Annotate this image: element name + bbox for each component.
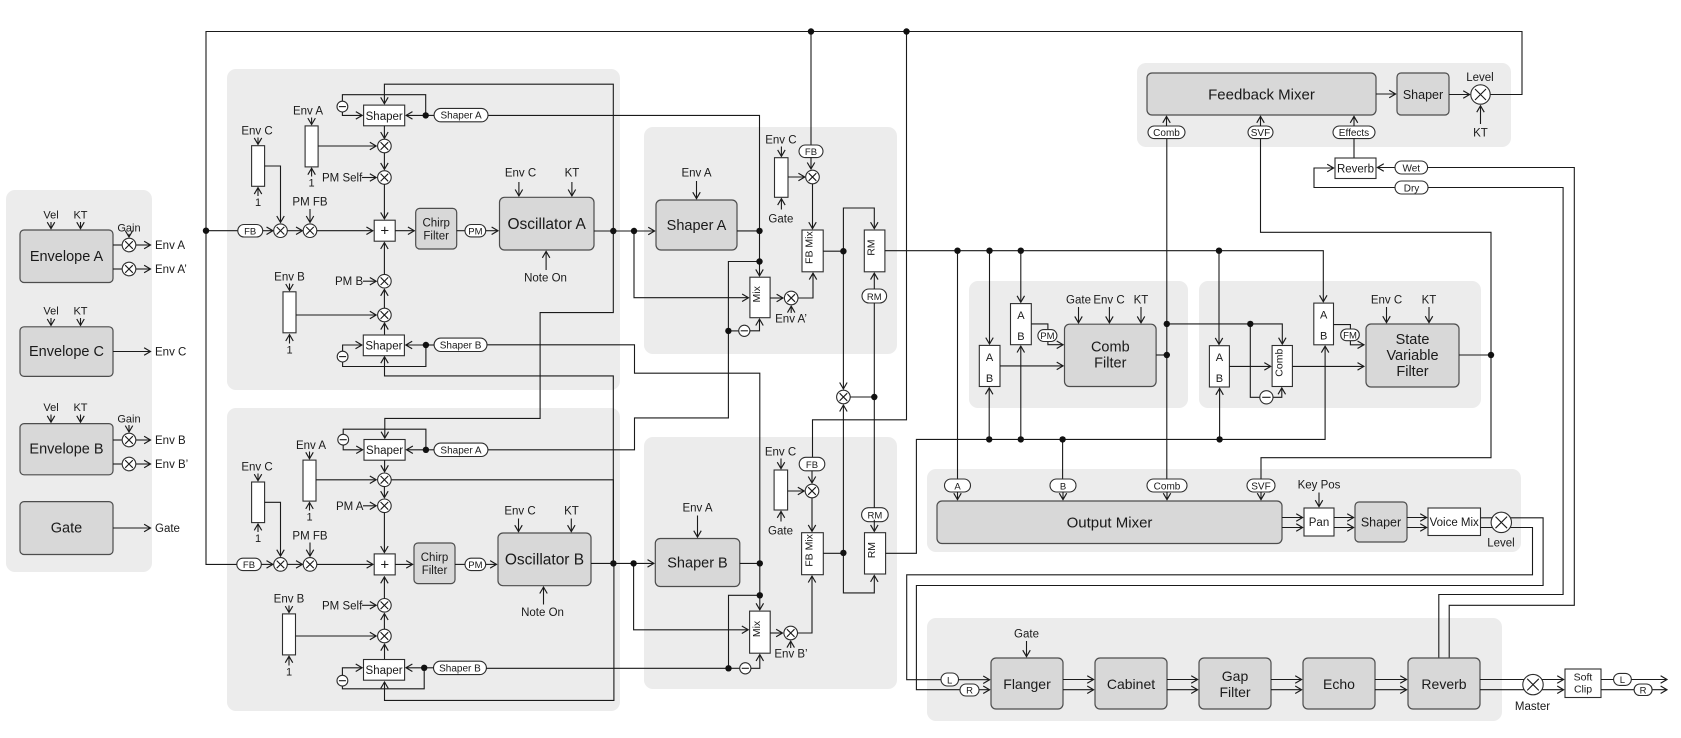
node A line to output mixer [954, 248, 960, 254]
svg-text:FM: FM [1343, 331, 1357, 342]
node B bus to switch 3 [1216, 436, 1222, 442]
wire FB spine branch to osc A FB oval [206, 230, 238, 232]
wire env A label arrow into slider [311, 118, 313, 125]
wire PM A label arrow into multiplier [363, 505, 376, 507]
svg-text:Env C: Env C [504, 506, 535, 518]
svg-text:Shaper: Shaper [1361, 516, 1401, 530]
svg-text:Level: Level [1487, 538, 1515, 550]
wire multiplier to multiplier PM FB [287, 230, 302, 232]
wire env C slider to FB multiplier (osc B) [265, 502, 281, 556]
wire comb filter output stub [1156, 354, 1167, 356]
wire inverter into small shaper left [343, 345, 362, 351]
wire SVF oval arrow into output mixer [1260, 492, 1262, 500]
svg-text:B: B [1320, 331, 1327, 343]
svg-text:KT: KT [73, 210, 87, 222]
wire note on arrow into oscillator B [543, 587, 545, 604]
svg-text:Mix: Mix [751, 620, 763, 637]
wire B bus up into switch 2 bottom [1020, 346, 1022, 439]
wire note on arrow into oscillator A [545, 251, 547, 270]
wire effects oval arrow into feedback mixer [1353, 116, 1355, 126]
svg-text:Dry: Dry [1404, 183, 1420, 194]
wire ring mod multiplier top input [842, 251, 844, 389]
svg-text:A: A [1216, 352, 1224, 364]
oval Shaper A (osc B) [434, 443, 488, 456]
cabinet box [1095, 658, 1167, 709]
wire R oval into flanger [979, 689, 990, 691]
wire multiplier to PM A multiplier [383, 487, 385, 498]
wire env A label arrow into slider [309, 452, 311, 459]
wire inverter up into mixer B bottom [751, 655, 760, 669]
svg-text:Env C: Env C [241, 126, 272, 138]
wire envelope C out to Env C label [113, 351, 151, 353]
svg-text:Env C: Env C [505, 168, 536, 180]
wire FB oval to multiplier (osc B) [261, 563, 273, 565]
node top bus to shaper B FB [903, 28, 909, 34]
multiplier (Env A) [122, 238, 136, 252]
reverb box (feedback path) [1335, 158, 1376, 179]
oval Dry [1395, 181, 1428, 194]
oval A (output mixer) [945, 479, 971, 492]
wire gate arrow into comb filter [1078, 307, 1080, 323]
shaper B box [655, 539, 740, 587]
svg-text:Filter: Filter [422, 565, 448, 577]
wire SVF oval arrow into feedback mixer [1260, 116, 1262, 126]
wire flanger to cabinet stereo R [1063, 689, 1094, 691]
svg-text:B: B [1060, 481, 1066, 492]
svg-text:Shaper B: Shaper B [440, 340, 482, 351]
svg-text:L: L [947, 675, 952, 686]
node inverter junction (shaper A panel) [725, 328, 731, 334]
mixer box (shaper A panel) [750, 277, 770, 318]
wire wet oval into reverb right [1377, 167, 1395, 169]
wire switch 4 to SVF FM input [1334, 325, 1364, 345]
svg-text:Env C: Env C [241, 462, 272, 474]
wire comb signal vertical net [1166, 138, 1168, 479]
wire B oval arrow into output mixer [1062, 492, 1064, 500]
wire chirp filter to PM oval (osc B) [455, 563, 465, 565]
panel: envelopes [6, 190, 152, 572]
svg-text:Envelope A: Envelope A [30, 249, 104, 265]
wire dry tap from effects reverb [1428, 188, 1563, 659]
envelope B box [20, 424, 113, 475]
wire reverb to soft clip stereo R [1480, 689, 1564, 691]
svg-text:Feedback Mixer: Feedback Mixer [1208, 87, 1315, 104]
wire oscillator B output to shaper B box [591, 562, 654, 564]
wire KT arrow into level multiplier [1480, 106, 1482, 124]
svg-text:Env C: Env C [155, 347, 186, 359]
panel: state variable filter [1199, 281, 1481, 408]
wire 1 arrow into env B slider [289, 335, 291, 344]
svg-text:PM FB: PM FB [292, 531, 327, 543]
wire gate slider out to FB multiplier [788, 176, 805, 178]
wire gap filter to echo stereo R [1271, 689, 1302, 691]
wire switch 3 to comb unit [1229, 365, 1270, 367]
multiplier (PM FB) [303, 224, 317, 238]
svg-text:PM: PM [1040, 331, 1054, 342]
wire PM FB label arrow into multiplier [309, 543, 311, 557]
svg-text:Reverb: Reverb [1337, 164, 1374, 176]
wire multiplier to multiplier PM FB (osc B) [287, 563, 302, 565]
wire multiplier to FB mix bottom [798, 273, 813, 298]
wire shaper B output to junction [740, 562, 760, 564]
wire inverter loop (osc B top) [343, 429, 426, 450]
wire A line down into switch 2 top [1020, 251, 1022, 303]
inverter (osc B bottom) [337, 675, 348, 686]
oval R (effects input) [960, 684, 979, 696]
envelope C box [20, 327, 113, 377]
wire 1 arrow into env B slider [288, 656, 290, 665]
wire multiplier to plus (osc B) [317, 563, 373, 565]
plus node (osc B) [374, 554, 395, 575]
oval Effects (feedback mixer) [1333, 126, 1375, 139]
multiplier (FB x gate, B) [805, 484, 819, 498]
wire shaper A output down into mixer A top [759, 231, 761, 276]
wire osc A self feedback up to top shaper [384, 84, 613, 231]
svg-text:1: 1 [255, 533, 261, 545]
shaper box (feedback mixer) [1397, 73, 1449, 115]
mixer box (shaper B panel) [750, 611, 771, 653]
wire A oval arrow into output mixer [957, 492, 959, 500]
reverb box (effects) [1408, 658, 1480, 709]
wire gain arrow into multiplier [128, 234, 130, 237]
oval SVF (feedback mixer) [1248, 126, 1273, 139]
wire shaper B output down into mixer B top [759, 563, 761, 609]
shaper A box [656, 200, 737, 250]
svg-text:Mix: Mix [751, 285, 763, 302]
svg-text:Filter: Filter [423, 231, 449, 243]
wire cabinet to gap filter stereo L [1167, 679, 1198, 681]
svg-text:A: A [954, 481, 961, 492]
svg-text:Env A’: Env A’ [155, 264, 187, 276]
wire shaper B oval into small shaper (osc B) [424, 667, 433, 669]
svg-text:FB: FB [243, 560, 255, 571]
wire inverter loop (osc A top) [342, 95, 425, 116]
wire RM B output to B bus [886, 346, 1326, 553]
wire plus to chirp filter [395, 230, 414, 232]
svg-text:Shaper: Shaper [365, 341, 402, 353]
wire FB drop to shaper B panel FB oval [813, 32, 907, 458]
svg-text:R: R [966, 686, 973, 697]
svg-text:Env B’: Env B’ [774, 649, 807, 661]
wire env C slider to FB multiplier [265, 166, 281, 222]
wire shaper A reference feed up from shaper A output junction [488, 115, 760, 230]
wire FB oval to multiplier [263, 230, 273, 232]
node A line to switch 3 [1216, 248, 1222, 254]
svg-text:A: A [1320, 310, 1328, 322]
svg-text:Gain: Gain [117, 414, 140, 426]
gate slider (shaper B panel) [774, 470, 788, 510]
wire multiplier to Env A label [136, 244, 151, 246]
wire branch to inverter column [728, 262, 759, 331]
svg-text:+: + [380, 223, 389, 240]
svg-text:Vel: Vel [43, 402, 58, 414]
wire env C label arrow into slider [257, 474, 259, 481]
wire env A slider to multiplier (osc B) [316, 479, 376, 481]
svg-text:KT: KT [1134, 295, 1149, 307]
oval Shaper A (osc A) [434, 108, 488, 121]
wire multiplier up to PM Self multiplier [383, 614, 385, 630]
svg-text:Comb: Comb [1153, 128, 1180, 139]
wire comb inverter feed [1250, 324, 1259, 397]
svg-text:Gate: Gate [155, 523, 180, 535]
wire env C arrow into SVF [1386, 307, 1388, 323]
wire multiplier down into FB mix B top [811, 498, 813, 532]
node B bus to switch 2 [1018, 436, 1024, 442]
panel: feedback mixer [1137, 63, 1511, 147]
oval RM (shaper A panel) [862, 289, 887, 303]
wire inverter into small shaper left (osc B) [342, 668, 362, 676]
svg-text:FB: FB [805, 147, 817, 158]
wire envelope B out to multiplier 2 [113, 463, 122, 465]
svg-text:PM Self: PM Self [322, 173, 363, 185]
wire B bus down to B oval [1062, 439, 1064, 479]
wire inverter up into mixer A bottom [750, 319, 760, 331]
node shaper B out [757, 560, 763, 566]
wire inverter into small shaper left (osc B) [343, 445, 362, 450]
svg-text:PM A: PM A [336, 501, 364, 513]
wire osc B signal from B main into bottom shaper [385, 357, 614, 564]
state variable filter box [1366, 324, 1459, 387]
wire inverter into comb unit bottom [1273, 388, 1282, 397]
svg-text:Env C: Env C [765, 135, 796, 147]
oval FB (shaper B panel) [799, 457, 825, 471]
svg-text:Gate: Gate [1066, 295, 1091, 307]
multiplier (PM A, osc B) [378, 499, 392, 513]
multiplier (Env B) [122, 433, 136, 447]
oval Wet [1395, 161, 1428, 174]
wire FB drop to shaper A panel FB oval [810, 32, 812, 146]
wire env B label arrow into slider [289, 284, 291, 291]
inverter (osc B top) [338, 434, 349, 445]
wire PM B multiplier up to plus bottom [383, 243, 385, 275]
multiplier (PM FB, osc B) [303, 558, 317, 572]
svg-text:1: 1 [255, 197, 261, 209]
wire multiplier to plus [317, 230, 373, 232]
svg-text:Env B: Env B [155, 435, 186, 447]
wire osc A output down to mixer A [634, 231, 749, 298]
svg-text:Level: Level [1466, 72, 1494, 84]
wire flanger to cabinet stereo L [1063, 679, 1094, 681]
svg-text:Shaper B: Shaper B [439, 664, 481, 675]
svg-text:Filter: Filter [1396, 364, 1428, 380]
node shaper B tap [757, 592, 763, 598]
oval FB (osc A) [238, 225, 263, 238]
wire branch to inverter column (shaper B panel) [729, 595, 760, 668]
svg-text:Shaper: Shaper [366, 445, 403, 457]
svg-text:Comb: Comb [1273, 349, 1285, 377]
svg-text:FB Mix: FB Mix [804, 533, 816, 566]
plus node (osc A) [374, 220, 395, 241]
wire PM FB label arrow into multiplier [309, 209, 311, 222]
oval R (master out) [1634, 684, 1652, 696]
env A slider (osc B) [303, 460, 316, 501]
oval L (effects input) [941, 673, 959, 686]
small shaper box (osc A top) [364, 105, 405, 126]
wire shaper A output to junction [737, 230, 760, 232]
svg-text:KT: KT [564, 506, 579, 518]
svg-text:Oscillator B: Oscillator B [505, 552, 584, 569]
wire osc A output staircase to osc B panel top shaper [385, 231, 614, 438]
wire ring mod multiplier bottom input [842, 405, 844, 553]
wire echo to reverb stereo L [1375, 679, 1407, 681]
svg-text:RM: RM [866, 542, 878, 558]
svg-text:Env A’: Env A’ [775, 314, 807, 326]
wire KT arrow into envelope A [80, 222, 82, 229]
svg-text:Variable: Variable [1386, 348, 1438, 364]
node osc B out 1 [610, 560, 616, 566]
inverter (osc A top) [337, 101, 348, 112]
wire gate arrow into flanger [1026, 641, 1028, 657]
svg-text:Shaper: Shaper [1403, 88, 1443, 102]
multiplier (FB x gate) [806, 170, 820, 184]
wire env A arrow into shaper B [697, 516, 699, 538]
svg-text:Env B: Env B [274, 272, 305, 284]
small shaper box (osc A bottom) [363, 335, 404, 356]
wire 1 arrow into env C slider [257, 188, 259, 196]
multiplier (x Env B') [784, 626, 798, 640]
node ring mod out [871, 394, 877, 400]
panel: shaper B [644, 437, 897, 689]
svg-text:KT: KT [1422, 295, 1437, 307]
wire oscillator A output to shaper A box [594, 230, 655, 232]
wire KT arrow into envelope C [80, 318, 82, 325]
wire output mixer to pan stereo R [1282, 527, 1303, 529]
multiplier (x Env A') [784, 291, 798, 305]
svg-text:RM: RM [866, 239, 878, 255]
inverter (shaper B panel) [740, 663, 751, 674]
wire multiplier to Env B' label [136, 463, 151, 465]
svg-text:Vel: Vel [43, 210, 58, 222]
inverter (SVF panel) [1260, 391, 1273, 404]
oval Shaper B (osc A) [434, 338, 487, 351]
wire chirp filter to PM oval [457, 230, 465, 232]
wire pan to shaper stereo L [1334, 517, 1354, 519]
multiplier (FB x EnvC) [274, 224, 288, 238]
node shaper B oval junction (osc A) [423, 342, 429, 348]
svg-text:Echo: Echo [1323, 676, 1355, 692]
svg-text:B: B [986, 373, 993, 385]
wire PM oval to oscillator B [486, 563, 497, 565]
svg-text:Shaper A: Shaper A [441, 111, 482, 122]
wire L oval into flanger [959, 679, 990, 681]
multiplier (Env A') [122, 262, 136, 276]
svg-text:KT: KT [565, 168, 580, 180]
wire env B slider to multiplier [296, 314, 376, 316]
multiplier (x Env A, osc A) [378, 139, 392, 153]
wire RM oval up to ring mod product junction [873, 397, 875, 508]
wire KT arrow into oscillator B [570, 519, 572, 532]
svg-text:KT: KT [1473, 128, 1488, 140]
wire env C arrow into oscillator B [518, 519, 520, 532]
inverter (osc A bottom) [337, 351, 348, 362]
wire wet tap from effects reverb [1428, 168, 1575, 659]
wire switch 1 to comb filter [1000, 365, 1063, 367]
env B slider (osc A) [283, 292, 296, 333]
wire output mixer to pan stereo L [1282, 517, 1303, 519]
svg-text:Voice Mix: Voice Mix [1430, 517, 1479, 529]
svg-text:Effects: Effects [1339, 128, 1369, 139]
svg-text:Comb: Comb [1154, 481, 1181, 492]
wire env C label arrow into gate slider (B) [780, 459, 782, 469]
wire FB mix output to RM junction [823, 250, 843, 252]
wire key pos arrow into pan [1318, 493, 1320, 507]
wire 1 arrow into env C slider [257, 524, 259, 532]
svg-text:Clip: Clip [1574, 684, 1592, 696]
panel: oscillator B [227, 408, 620, 711]
wire gain arrow into multiplier [128, 425, 130, 432]
svg-text:Gate: Gate [768, 526, 793, 538]
oval SVF (output mixer) [1247, 479, 1275, 492]
comb unit box (SVF panel) [1272, 346, 1292, 387]
oval FB (osc B) [237, 558, 261, 570]
node inverter junction (shaper B panel) [725, 665, 731, 671]
env C slider (osc B) [252, 482, 265, 523]
svg-text:KT: KT [73, 306, 87, 318]
wire FB mix B output to junction [823, 552, 843, 554]
wire SVF down to output mixer SVF oval [1261, 355, 1491, 479]
multiplier (PM Self, osc A) [378, 171, 392, 185]
wire feedback mixer output top bus to FB spine [206, 32, 1522, 565]
svg-text:Key Pos: Key Pos [1298, 480, 1341, 492]
svg-text:Shaper A: Shaper A [440, 445, 481, 456]
comb filter box [1065, 324, 1157, 386]
wire RM oval down into RM B top [873, 520, 875, 532]
wire B bus up into switch 3 bottom [1219, 388, 1221, 439]
svg-text:PM: PM [468, 227, 482, 238]
multiplier (ring mod A x B) [837, 390, 851, 404]
RM box (shaper A panel) [864, 230, 885, 272]
oval L (master out) [1614, 673, 1632, 685]
gate slider (shaper A panel) [775, 158, 789, 198]
svg-text:Soft: Soft [1574, 672, 1593, 684]
wire RM oval up into RM box bottom [873, 273, 875, 289]
wire plus to chirp filter (osc B) [395, 563, 412, 565]
oval FM (SVF panel) [1341, 329, 1360, 341]
wire shaper A oval into small shaper (osc B) [426, 449, 434, 451]
svg-text:Env B: Env B [274, 594, 305, 606]
svg-text:Env C: Env C [1371, 295, 1402, 307]
svg-text:PM Self: PM Self [322, 600, 363, 612]
gap filter box [1199, 658, 1271, 709]
wire bottom shaper output up into multiplier [384, 323, 386, 335]
wire mixer A to multiplier Env A' [770, 297, 783, 299]
wire env C arrow into comb filter [1108, 307, 1110, 323]
wire multiplier to Env B label [136, 439, 151, 441]
A/B switch 3 [1209, 346, 1229, 387]
oval Shaper B (osc B) [434, 661, 487, 674]
wire vel arrow into envelope B [50, 415, 52, 423]
wire PM Self label arrow into multiplier [362, 604, 376, 606]
wire env C label arrow into slider [257, 138, 259, 145]
wire ring mod multiplier output to RM net [850, 396, 874, 398]
feedback mixer box [1147, 73, 1376, 115]
node shaper A out [756, 228, 762, 234]
svg-text:Shaper A: Shaper A [667, 218, 727, 234]
wire voice level return to effects L input [907, 528, 1533, 680]
wire 1 arrow into env A slider [311, 168, 313, 176]
wire junction into inverter B [729, 667, 740, 669]
wire RM A output main line A to SVF switch [885, 251, 1323, 302]
multiplier (PM Self, osc B) [378, 599, 392, 613]
node comb inverter branch [1247, 321, 1253, 327]
pan box [1304, 508, 1334, 536]
multiplier (Env B') [122, 457, 136, 471]
node B bus to B oval [1059, 436, 1065, 442]
multiplier (x Env B, osc B) [378, 629, 392, 643]
node comb filter out [1164, 352, 1170, 358]
wire env C label arrow into gate slider [780, 147, 782, 157]
wire pan to shaper stereo R [1334, 527, 1354, 529]
